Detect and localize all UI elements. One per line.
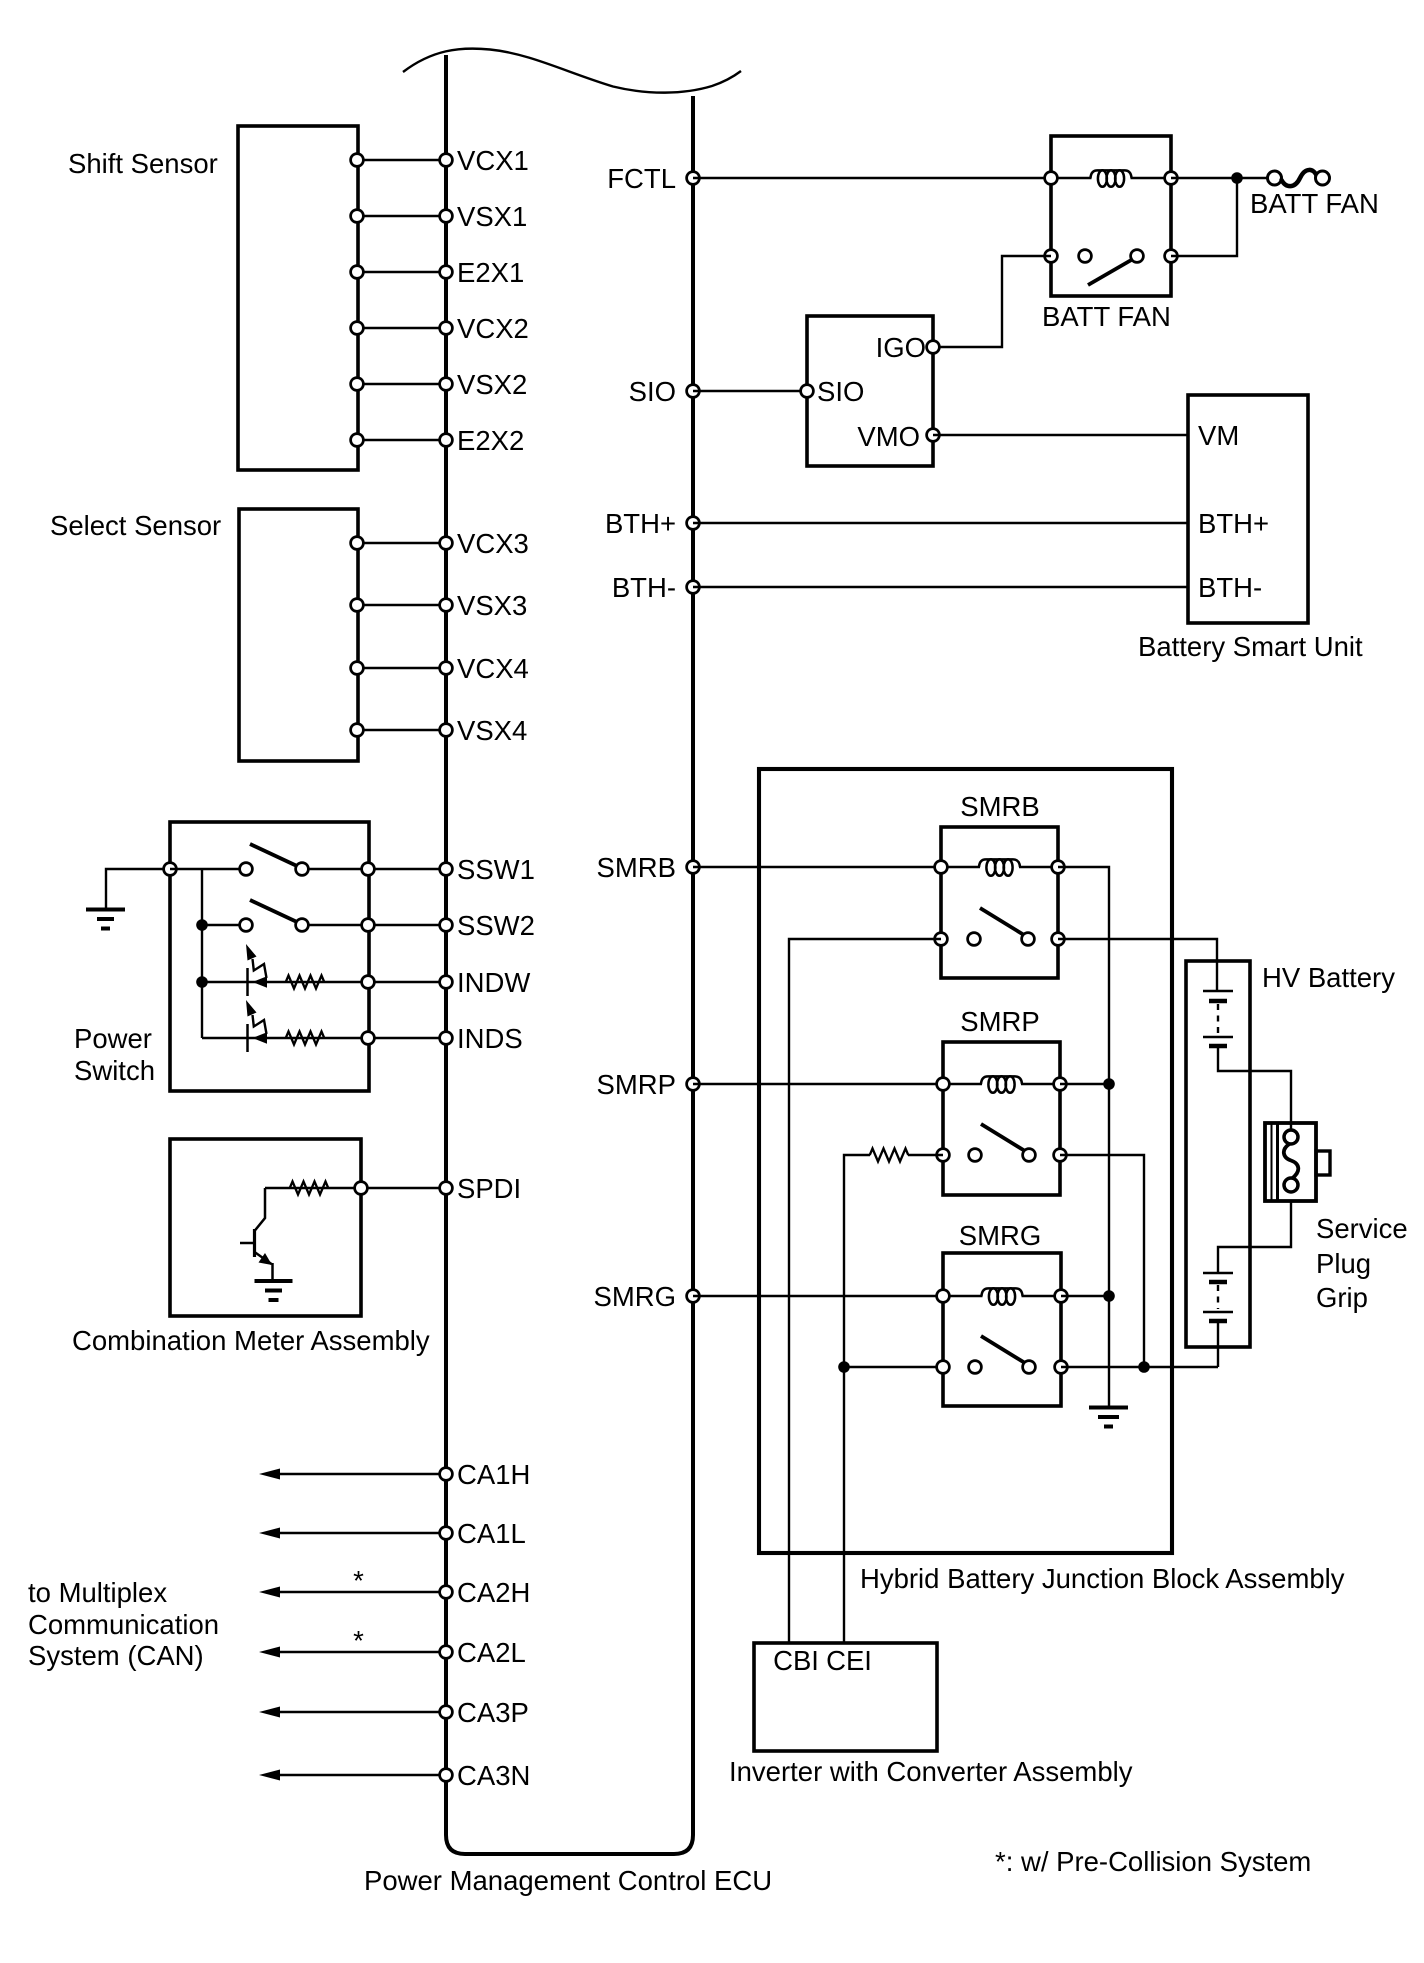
relay SMRB switch blade [980, 908, 1024, 935]
terminal power switch right (INDS) [362, 1032, 375, 1045]
pin CA3N on ECU [440, 1769, 453, 1782]
pin INDS on ECU [440, 1032, 453, 1045]
svg-text:Communication: Communication [28, 1609, 219, 1640]
wire VCX3 from select sensor to ECU [358, 542, 446, 544]
pin CA2H on ECU [440, 1586, 453, 1599]
pin BTH- on ECU [687, 581, 700, 594]
terminal on shift sensor (VCX2) [351, 322, 364, 335]
transistor Q1 base bar [253, 1229, 256, 1257]
wire SMRB to relay coil [693, 866, 941, 868]
wire SMRB switch to HV battery + [1058, 939, 1217, 991]
wire BTH+ [693, 522, 1188, 524]
svg-text:VCX1: VCX1 [457, 145, 529, 176]
relay SMRB box [941, 827, 1058, 978]
wire VCX2 from shift sensor to ECU [358, 327, 446, 329]
wire internal branch in power switch [201, 869, 203, 1038]
relay SMRP switch blade [981, 1124, 1025, 1151]
relay BATT FAN switch terminals [1045, 250, 1058, 263]
svg-text:VSX1: VSX1 [457, 201, 527, 232]
svg-text:Hybrid Battery Junction Block: Hybrid Battery Junction Block Assembly [860, 1563, 1345, 1594]
svg-text:VCX3: VCX3 [457, 528, 529, 559]
terminal on shift sensor (VSX1) [351, 210, 364, 223]
relay SMRG switch contacts [969, 1361, 982, 1374]
relay SMRG coil terminals [937, 1290, 950, 1303]
svg-text:Plug: Plug [1316, 1248, 1371, 1279]
svg-text:System (CAN): System (CAN) [28, 1640, 204, 1671]
svg-text:INDS: INDS [457, 1023, 523, 1054]
Power Management Control ECU outline U1 [446, 55, 693, 1854]
svg-text:Service: Service [1316, 1213, 1408, 1244]
relay SMRG switch blade [981, 1336, 1025, 1363]
wire/arrow CA1L to CAN [273, 1532, 446, 1534]
pin SIO on ECU [687, 385, 700, 398]
wire SSW1 row [170, 868, 246, 870]
wire VSX3 from select sensor to ECU [358, 604, 446, 606]
terminal power switch right (SSW1) [362, 863, 375, 876]
svg-text:E2X2: E2X2 [457, 425, 524, 456]
svg-text:VMO: VMO [857, 421, 920, 452]
pin E2X2 on ECU [440, 434, 453, 447]
terminal on shift sensor (E2X1) [351, 266, 364, 279]
relay SMRP coil terminals [937, 1078, 950, 1091]
resistor SPDI [290, 1182, 329, 1195]
terminal on shift sensor (VCX1) [351, 154, 364, 167]
wire battery bottom stem [1217, 1323, 1219, 1367]
wire VMO to VM [933, 434, 1188, 436]
pin VCX2 on ECU [440, 322, 453, 335]
select sensor box [239, 509, 358, 761]
relay BATT FAN box [1051, 136, 1171, 296]
junction dot INDW branch [196, 976, 208, 988]
relay SMRB switch terminals [935, 933, 948, 946]
wire SIO [693, 390, 807, 392]
svg-text:Inverter with Converter Assemb: Inverter with Converter Assembly [729, 1756, 1133, 1787]
svg-text:*: * [353, 1565, 364, 1596]
service plug contacts [1284, 1130, 1298, 1144]
svg-text:CA3P: CA3P [457, 1697, 529, 1728]
pin VSX3 on ECU [440, 599, 453, 612]
wire SMRP switch right down [1060, 1155, 1144, 1367]
LED indicator (INDW) [246, 968, 249, 996]
battery cells top group [1203, 990, 1233, 993]
battery cells bottom group [1203, 1272, 1233, 1275]
switch SSW2 blade [250, 900, 297, 922]
service plug fuse link [1284, 1144, 1298, 1179]
wire VCX1 from shift sensor to ECU [358, 159, 446, 161]
wire relay switch to junction [1171, 178, 1237, 256]
svg-text:SIO: SIO [629, 376, 676, 407]
relay BATT FAN coil terminals [1045, 172, 1058, 185]
wire CEI junction to inverter [843, 1367, 845, 1643]
wire FCTL to BATT FAN relay [693, 177, 1051, 179]
relay SMRG switch terminals [937, 1361, 950, 1374]
svg-text:SMRP: SMRP [597, 1069, 676, 1100]
wire SMRG switch to HV battery - [1061, 1366, 1218, 1368]
svg-text:BTH-: BTH- [612, 572, 676, 603]
pin CA1L on ECU [440, 1527, 453, 1540]
svg-text:CA3N: CA3N [457, 1760, 530, 1791]
switch SSW1 contacts [240, 863, 253, 876]
svg-text:Switch: Switch [74, 1055, 155, 1086]
wire relay switch to IGO [933, 256, 1051, 347]
svg-text:SMRG: SMRG [594, 1281, 677, 1312]
pin VSX2 on ECU [440, 378, 453, 391]
svg-text:CA1L: CA1L [457, 1518, 526, 1549]
battery fan controller box [807, 316, 933, 466]
svg-text:CA2H: CA2H [457, 1577, 530, 1608]
svg-text:to Multiplex: to Multiplex [28, 1577, 167, 1608]
wire/arrow CA3P to CAN [273, 1711, 446, 1713]
junction dot SMRP coil/bus [1103, 1078, 1115, 1090]
wire: ECU break wave line [403, 49, 741, 93]
wire/arrow CA3N to CAN [273, 1774, 446, 1776]
svg-text:BTH+: BTH+ [1198, 508, 1269, 539]
pin SSW2 on ECU [440, 919, 453, 932]
svg-text:VSX4: VSX4 [457, 715, 527, 746]
service plug grip box [1265, 1123, 1316, 1201]
svg-text:CA2L: CA2L [457, 1637, 526, 1668]
fan motor BATT FAN symbol [1268, 171, 1282, 185]
junction dot SMRG coil/bus [1103, 1290, 1115, 1302]
switch SSW2 contacts [240, 919, 253, 932]
terminal power switch right (SSW2) [362, 919, 375, 932]
svg-text:SPDI: SPDI [457, 1173, 521, 1204]
transistor Q1 base lead [240, 1242, 255, 1245]
svg-text:VSX2: VSX2 [457, 369, 527, 400]
resistor INDW [286, 976, 325, 989]
svg-text:Power: Power [74, 1023, 152, 1054]
wire battery mid to service plug [1218, 1048, 1291, 1130]
wire/arrow CA1H to CAN [273, 1473, 446, 1475]
resistor INDS [286, 1032, 325, 1045]
svg-text:CBI: CBI [773, 1645, 819, 1676]
relay BATT FAN switch contacts [1079, 250, 1092, 263]
terminal IGO [927, 341, 940, 354]
terminal SIO (controller) [801, 385, 814, 398]
battery smart unit box [1188, 395, 1308, 623]
pin CA1H on ECU [440, 1468, 453, 1481]
svg-text:SMRP: SMRP [960, 1006, 1039, 1037]
pin SSW1 on ECU [440, 863, 453, 876]
svg-text:BTH-: BTH- [1198, 572, 1262, 603]
svg-text:VCX4: VCX4 [457, 653, 529, 684]
ground (junction block bus) [1089, 1406, 1128, 1410]
shift sensor box [238, 126, 358, 470]
pin VCX4 on ECU [440, 662, 453, 675]
svg-text:Grip: Grip [1316, 1282, 1368, 1313]
svg-text:CA1H: CA1H [457, 1459, 530, 1490]
svg-text:VSX3: VSX3 [457, 590, 527, 621]
switch SSW1 blade [250, 844, 297, 866]
svg-text:BTH+: BTH+ [605, 508, 676, 539]
junction dot SSW2 branch [196, 919, 208, 931]
svg-text:FCTL: FCTL [607, 163, 676, 194]
wire E2X1 from shift sensor to ECU [358, 271, 446, 273]
svg-text:SIO: SIO [817, 376, 864, 407]
svg-text:*: w/ Pre-Collision System: *: w/ Pre-Collision System [995, 1846, 1311, 1877]
svg-text:BATT FAN: BATT FAN [1250, 188, 1379, 219]
relay SMRB coil terminals [935, 861, 948, 874]
wire SPDI row [265, 1187, 446, 1189]
pin CA2L on ECU [440, 1646, 453, 1659]
wire/arrow CA2L to CAN [273, 1651, 446, 1653]
pin CA3P on ECU [440, 1706, 453, 1719]
pin SPDI on ECU [440, 1182, 453, 1195]
relay SMRP switch terminals [937, 1149, 950, 1162]
relay SMRB switch contacts [968, 933, 981, 946]
wire SMRG to relay coil [693, 1295, 943, 1297]
pin VCX1 on ECU [440, 154, 453, 167]
LED indicator (INDS) [246, 1024, 249, 1052]
pin VSX1 on ECU [440, 210, 453, 223]
service plug inner lines [1271, 1123, 1273, 1201]
ground (power switch) [86, 908, 125, 912]
pin BTH+ on ECU [687, 517, 700, 530]
terminal on select sensor (VSX3) [351, 599, 364, 612]
wire emitter to ground [271, 1263, 274, 1281]
terminal power switch left (SSW1) [164, 863, 177, 876]
transistor Q1 collector lead [255, 1188, 266, 1231]
transistor Q1 emitter lead [255, 1252, 272, 1264]
svg-text:IGO: IGO [876, 332, 926, 363]
terminal on select sensor (VCX4) [351, 662, 364, 675]
pin VCX3 on ECU [440, 537, 453, 550]
power switch box [170, 822, 369, 1091]
svg-text:Shift Sensor: Shift Sensor [68, 148, 218, 179]
junction dot SMRG/HV battery bottom [1138, 1361, 1150, 1373]
hybrid battery junction block box [759, 769, 1172, 1553]
junction dot CEI/SMRG switch [838, 1361, 850, 1373]
pin E2X1 on ECU [440, 266, 453, 279]
wire INDW row [202, 981, 446, 983]
terminal on select sensor (VCX3) [351, 537, 364, 550]
wire resistor to CEI junction [844, 1155, 870, 1367]
wire VSX4 from select sensor to ECU [358, 729, 446, 731]
relay SMRG box [943, 1253, 1061, 1406]
wire SMRB coil to ground bus [1058, 867, 1109, 1407]
wire SMRG switch row [844, 1366, 943, 1368]
relay SMRP box [943, 1042, 1060, 1195]
terminal power switch right (INDW) [362, 976, 375, 989]
relay SMRP coil [943, 1083, 982, 1085]
terminal on shift sensor (VSX2) [351, 378, 364, 391]
terminal on shift sensor (E2X2) [351, 434, 364, 447]
wire E2X2 from shift sensor to ECU [358, 439, 446, 441]
relay BATT FAN coil [1051, 177, 1092, 179]
wire SMRP to relay coil [693, 1083, 943, 1085]
resistor (SMRP precharge) [870, 1149, 909, 1162]
wire SMRB switch to CBI [789, 939, 941, 1643]
wire INDS row [202, 1037, 446, 1039]
pin VSX4 on ECU [440, 724, 453, 737]
svg-text:BATT FAN: BATT FAN [1042, 301, 1171, 332]
wire/arrow CA2H to CAN [273, 1591, 446, 1593]
svg-text:SSW2: SSW2 [457, 910, 535, 941]
relay SMRB coil [941, 866, 980, 868]
wire SMRP switch left to resistor [908, 1154, 943, 1156]
pin SMRP on ECU [687, 1078, 700, 1091]
wire SMRG coil to ground bus [1061, 1295, 1109, 1297]
wire VSX2 from shift sensor to ECU [358, 383, 446, 385]
junction dot FCTL/fan [1231, 172, 1243, 184]
svg-text:SMRB: SMRB [597, 852, 676, 883]
wire VSX1 from shift sensor to ECU [358, 215, 446, 217]
svg-text:SMRG: SMRG [959, 1220, 1042, 1251]
terminal on select sensor (VSX4) [351, 724, 364, 737]
inverter with converter assembly box (CBI CEI) [754, 1643, 937, 1751]
svg-text:E2X1: E2X1 [457, 257, 524, 288]
svg-text:Combination Meter Assembly: Combination Meter Assembly [72, 1325, 430, 1356]
svg-text:Battery Smart Unit: Battery Smart Unit [1138, 631, 1363, 662]
svg-text:HV Battery: HV Battery [1262, 962, 1395, 993]
wire relay coil to fan motor [1171, 177, 1268, 179]
pin SMRG on ECU [687, 1290, 700, 1303]
svg-text:SSW1: SSW1 [457, 854, 535, 885]
wire SSW2 row [202, 924, 246, 926]
ground (combination meter) [255, 1279, 293, 1283]
svg-text:*: * [353, 1625, 364, 1656]
terminal combination meter (SPDI) [355, 1182, 368, 1195]
wire SMRP coil to ground bus [1060, 1083, 1109, 1085]
HV battery box [1186, 961, 1250, 1347]
pin SMRB on ECU [687, 861, 700, 874]
pin FCTL on ECU [687, 172, 700, 185]
wire service plug to battery bottom [1218, 1201, 1291, 1273]
wire VCX4 from select sensor to ECU [358, 667, 446, 669]
relay SMRP switch contacts [969, 1149, 982, 1162]
svg-text:VCX2: VCX2 [457, 313, 529, 344]
svg-text:Select Sensor: Select Sensor [50, 510, 221, 541]
wire from power switch to ground [106, 869, 170, 909]
svg-text:INDW: INDW [457, 967, 530, 998]
svg-text:Power Management Control ECU: Power Management Control ECU [364, 1865, 772, 1896]
svg-text:CEI: CEI [826, 1645, 872, 1676]
combination meter assembly box [170, 1139, 361, 1316]
wire BTH- [693, 586, 1188, 588]
pin INDW on ECU [440, 976, 453, 989]
relay SMRG coil [943, 1295, 983, 1297]
relay BATT FAN switch blade [1088, 259, 1133, 285]
terminal VMO [927, 429, 940, 442]
svg-text:VM: VM [1198, 420, 1239, 451]
svg-text:SMRB: SMRB [960, 791, 1039, 822]
